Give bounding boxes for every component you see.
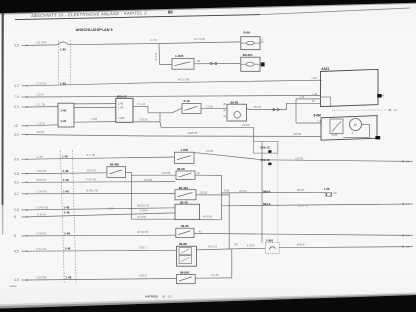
svg-text:1.46: 1.46 [118, 102, 124, 106]
svg-text:1-48: 1-48 [64, 231, 70, 235]
svg-text:0.8 O/R: 0.8 O/R [36, 41, 47, 45]
svg-text:B-08: B-08 [244, 31, 251, 35]
svg-text:23/1B: 23/1B [206, 149, 213, 153]
svg-text:16: 16 [14, 124, 18, 128]
svg-text:2.48: 2.48 [317, 120, 322, 123]
svg-text:4-7B: 4-7B [37, 155, 43, 159]
svg-text:ANTRIEB: ANTRIEB [145, 295, 158, 299]
svg-text:1.48: 1.48 [118, 106, 124, 110]
svg-text:C2: C2 [260, 38, 264, 42]
svg-text:1-48: 1-48 [65, 275, 71, 279]
svg-text:46/8/7B: 46/8/7B [188, 131, 198, 135]
svg-text:8-48: 8-48 [184, 99, 190, 103]
svg-text:48/7B: 48/7B [294, 132, 302, 136]
svg-text:-48: -48 [333, 191, 337, 195]
svg-text:40.5 B: 40.5 B [154, 53, 158, 61]
svg-text:1-42: 1-42 [60, 119, 66, 123]
svg-text:0.8 L/B: 0.8 L/B [37, 247, 46, 251]
svg-text:0.34/7B: 0.34/7B [37, 232, 47, 236]
svg-text:8.23/8: 8.23/8 [247, 244, 255, 248]
svg-text:89-88: 89-88 [179, 242, 187, 246]
svg-text:1-D05: 1-D05 [175, 54, 184, 58]
svg-text:M: M [354, 123, 357, 127]
svg-text:1-48: 1-48 [63, 189, 69, 193]
svg-text:809-4: 809-4 [263, 189, 271, 193]
svg-text:7.6: 7.6 [14, 95, 19, 99]
svg-text:4.6: 4.6 [14, 249, 19, 253]
svg-text:1-48: 1-48 [63, 205, 69, 209]
svg-text:1-48: 1-48 [65, 247, 71, 251]
svg-text:48.80/7B: 48.80/7B [137, 230, 148, 234]
svg-text:1-48: 1-48 [62, 155, 68, 159]
svg-text:0.8: 0.8 [14, 157, 19, 161]
svg-text:89-08: 89-08 [177, 167, 185, 171]
svg-text:29/7B: 29/7B [239, 189, 246, 193]
svg-text:1-88: 1-88 [324, 187, 330, 191]
svg-text:40.5 O/R: 40.5 O/R [194, 37, 205, 41]
svg-text:2.1.7B: 2.1.7B [37, 103, 45, 107]
svg-text:18: 18 [406, 160, 410, 164]
svg-text:F43.7B: F43.7B [87, 177, 96, 181]
svg-text:1-46: 1-46 [60, 108, 66, 112]
svg-text:46/7B: 46/7B [37, 130, 45, 134]
svg-text:-82.48: -82.48 [211, 273, 219, 277]
svg-text:88/7B: 88/7B [297, 188, 304, 192]
svg-text:89-485: 89-485 [110, 163, 120, 167]
svg-text:0.34/7B: 0.34/7B [37, 189, 47, 193]
svg-text:23/1B: 23/1B [242, 123, 249, 127]
svg-text:4.6: 4.6 [14, 44, 19, 48]
svg-text:8-88: 8-88 [224, 188, 230, 192]
svg-text:8.8/7B: 8.8/7B [162, 171, 170, 175]
svg-text:89-82: 89-82 [181, 224, 189, 228]
svg-text:833/7B: 833/7B [37, 178, 46, 182]
svg-text:780/7B: 780/7B [37, 169, 46, 173]
svg-text:8.1.7B: 8.1.7B [87, 153, 95, 157]
svg-text:2.1 B: 2.1 B [150, 38, 157, 42]
svg-text:-8.8/1B: -8.8/1B [37, 213, 46, 217]
svg-text:4.1: 4.1 [14, 192, 19, 196]
svg-text:89-481: 89-481 [179, 186, 189, 190]
svg-text:0.8: 0.8 [14, 208, 19, 212]
svg-text:89-48: 89-48 [180, 200, 188, 204]
svg-text:-1.48/8: -1.48/8 [139, 209, 148, 213]
svg-text:4.9: 4.9 [14, 133, 19, 137]
svg-text:8.8/7B: 8.8/7B [144, 178, 152, 182]
svg-text:B09-10: B09-10 [117, 94, 127, 98]
svg-text:0.848/7B: 0.848/7B [37, 206, 49, 210]
svg-text:48180/7B: 48180/7B [137, 203, 149, 207]
svg-text:0.6: 0.6 [14, 181, 19, 185]
svg-text:1.25 B: 1.25 B [37, 121, 45, 125]
svg-text:1-48: 1-48 [64, 210, 70, 214]
svg-text:18: 18 [406, 234, 410, 238]
svg-text:8: 8 [14, 234, 16, 238]
svg-text:84818: 84818 [297, 243, 305, 247]
svg-text:1-BM: 1-BM [181, 148, 189, 152]
svg-text:8-0M: 8-0M [314, 113, 322, 117]
svg-text:1/80: 1/80 [108, 207, 114, 211]
svg-text:4.2: 4.2 [14, 84, 19, 88]
svg-text:809-8: 809-8 [263, 202, 271, 206]
svg-text:89-881: 89-881 [180, 271, 190, 275]
svg-text:2/80.7: 2/80.7 [139, 246, 147, 250]
svg-text:7.408: 7.408 [90, 117, 97, 121]
svg-text:8.481.7B: 8.481.7B [87, 189, 99, 193]
svg-text:88: 88 [168, 9, 173, 14]
svg-text:40.5 OR: 40.5 OR [178, 78, 190, 82]
svg-text:780: 780 [234, 242, 239, 246]
svg-text:8: 8 [14, 215, 16, 219]
svg-text:-28/1B: -28/1B [199, 191, 207, 195]
svg-text:1-80: 1-80 [60, 48, 66, 52]
svg-text:0.8: 0.8 [14, 172, 19, 176]
svg-text:A181: A181 [321, 67, 329, 71]
svg-text:809-1C: 809-1C [261, 146, 271, 150]
svg-text:4B: 4B [197, 59, 200, 63]
svg-text:85/7B: 85/7B [254, 105, 261, 109]
svg-text:weiss: weiss [10, 284, 18, 288]
svg-text:2-88: 2-88 [312, 76, 318, 80]
svg-text:8.1.18: 8.1.18 [138, 102, 146, 106]
svg-text:B9-001: B9-001 [243, 53, 253, 57]
svg-text:0.8/7B: 0.8/7B [295, 157, 303, 161]
svg-text:14: 14 [406, 202, 410, 206]
svg-text:+8: +8 [393, 108, 397, 112]
svg-text:81-8/7B: 81-8/7B [298, 204, 308, 208]
svg-text:08 - 207: 08 - 207 [162, 295, 173, 299]
svg-text:84C1/8: 84C1/8 [208, 245, 217, 249]
svg-text:2.5 R: 2.5 R [37, 93, 44, 97]
svg-text:10: 10 [406, 245, 410, 249]
svg-text:302B: 302B [332, 134, 338, 137]
svg-text:0.9: 0.9 [14, 105, 19, 109]
svg-text:ANSCHLUSSPLAN 9: ANSCHLUSSPLAN 9 [76, 28, 113, 32]
svg-text:C1-88: C1-88 [206, 104, 214, 108]
svg-text:1.484: 1.484 [118, 116, 125, 120]
svg-text:283/7B: 283/7B [87, 168, 96, 172]
svg-text:0.34/7B: 0.34/7B [37, 81, 47, 85]
svg-text:48.8/1B: 48.8/1B [203, 214, 213, 218]
svg-text:1-48: 1-48 [63, 178, 69, 182]
svg-text:2-881: 2-881 [266, 239, 274, 243]
svg-text:-8.4/7B: -8.4/7B [137, 215, 146, 219]
svg-text:809-18: 809-18 [261, 158, 270, 162]
svg-text:235/1B: 235/1B [139, 117, 148, 121]
svg-text:1-48: 1-48 [312, 92, 318, 96]
svg-text:4.5: 4.5 [14, 278, 19, 282]
svg-text:1-08: 1-08 [299, 95, 305, 99]
svg-text:1-48: 1-48 [62, 169, 68, 173]
svg-text:1-80: 1-80 [60, 82, 66, 86]
svg-text:L/82/7B: L/82/7B [37, 276, 47, 280]
svg-text:8.81/8: 8.81/8 [139, 273, 147, 277]
